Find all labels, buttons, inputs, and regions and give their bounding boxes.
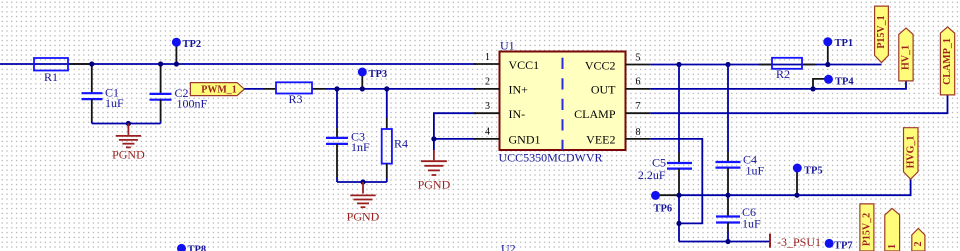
testpoint TP6	[651, 191, 679, 215]
svg-text:1: 1	[887, 244, 898, 249]
svg-text:TP7: TP7	[834, 241, 853, 251]
capacitor C2	[150, 64, 208, 124]
svg-text:7: 7	[636, 101, 641, 112]
junction PGND left	[126, 121, 131, 126]
ground PGND left	[112, 124, 145, 162]
svg-text:1uF: 1uF	[746, 164, 765, 178]
svg-text:U2: U2	[501, 242, 516, 251]
svg-text:4: 4	[485, 127, 490, 138]
pin 1 VCC1	[474, 52, 539, 72]
wire row2 R3 to pin2	[325, 88, 476, 90]
svg-text:R1: R1	[44, 70, 58, 84]
resistor R1	[34, 58, 92, 84]
ground PGND middle	[347, 182, 380, 224]
svg-text:R4: R4	[394, 137, 408, 151]
resistor R2	[759, 58, 815, 81]
svg-text:2.2uF: 2.2uF	[638, 168, 666, 182]
port P15V_2	[860, 204, 874, 251]
svg-text:100nF: 100nF	[177, 97, 208, 111]
svg-text:TP3: TP3	[369, 69, 388, 80]
junction bottom C6	[725, 239, 730, 244]
resistor R3	[263, 82, 325, 106]
svg-text:R2: R2	[776, 67, 790, 81]
junction row1 C2	[158, 61, 163, 66]
svg-text:PGND: PGND	[112, 148, 145, 162]
svg-text:TP8: TP8	[188, 245, 207, 251]
junction row5 C4	[725, 62, 730, 67]
svg-text:TP6: TP6	[654, 204, 673, 215]
svg-text:P15V_1: P15V_1	[876, 15, 887, 48]
port CLAMP_1	[940, 27, 954, 95]
svg-text:UCC5350MCDWVR: UCC5350MCDWVR	[499, 151, 603, 165]
junction row2 C3	[334, 86, 339, 91]
svg-text:VEE2: VEE2	[586, 133, 615, 147]
junction row1 TP2	[174, 61, 179, 66]
svg-text:R3: R3	[289, 92, 303, 106]
junction VEE2 leg	[676, 221, 681, 226]
svg-text:8: 8	[636, 127, 641, 138]
svg-text:TP4: TP4	[835, 76, 854, 87]
svg-text:PGND: PGND	[347, 210, 380, 224]
svg-text:1uF: 1uF	[742, 217, 761, 231]
port P15V_1	[875, 6, 889, 63]
wire row VCC2	[650, 64, 881, 66]
testpoint TP2	[172, 38, 201, 64]
testpoint TP7	[825, 239, 853, 251]
wire OUT row	[650, 81, 906, 89]
port CLAMP_2 partial	[912, 229, 925, 251]
svg-text:HV_1: HV_1	[901, 45, 912, 70]
pin 5 VCC2	[585, 53, 650, 73]
svg-text:OUT: OUT	[591, 83, 616, 97]
svg-text:PGND: PGND	[418, 178, 451, 192]
wire C3-R4 bottom	[337, 181, 387, 183]
pin 3 IN-	[474, 101, 525, 121]
capacitor C4	[716, 65, 765, 195]
junction y195 TP5	[794, 193, 799, 198]
wire bottom VEE	[679, 241, 770, 243]
junction y195 C5	[676, 193, 681, 198]
svg-text:1: 1	[485, 52, 490, 63]
svg-text:IN+: IN+	[509, 83, 529, 97]
resistor R4	[382, 89, 408, 182]
svg-text:IN-: IN-	[509, 107, 526, 121]
pin 4 GND1	[474, 127, 541, 147]
svg-text:3: 3	[485, 101, 490, 112]
svg-text:HVG_1: HVG_1	[905, 136, 916, 169]
wire C1-C2 bottom	[92, 123, 161, 125]
junction bottom row2	[360, 179, 365, 184]
svg-text:TP2: TP2	[183, 39, 202, 50]
port HV_2 partial	[885, 208, 900, 251]
svg-text:1uF: 1uF	[105, 96, 124, 110]
op-amp U1 body	[499, 38, 626, 164]
capacitor C3	[326, 89, 370, 182]
wire pin4 left	[434, 138, 476, 140]
junction OUT TP4	[810, 86, 815, 91]
svg-text:-3_PSU1: -3_PSU1	[777, 235, 821, 249]
svg-text:PWM_1: PWM_1	[201, 85, 237, 96]
junction row2 TP3	[360, 86, 365, 91]
svg-text:GND1: GND1	[509, 133, 541, 147]
svg-text:VCC1: VCC1	[509, 58, 540, 72]
port HVG_1	[904, 128, 919, 180]
testpoint TP8	[177, 244, 206, 251]
wire VEE2 row	[650, 139, 702, 224]
pin 7 CLAMP	[574, 101, 650, 121]
svg-text:P15V_2: P15V_2	[862, 213, 873, 246]
junction pin4 PGND	[431, 136, 436, 141]
svg-text:VCC2: VCC2	[585, 58, 616, 72]
svg-text:2: 2	[913, 242, 924, 247]
ground PGND U1	[418, 150, 451, 192]
svg-text:6: 6	[636, 77, 641, 88]
junction row5 TP1	[825, 62, 830, 67]
wire PWM to R3	[244, 88, 263, 90]
wire pin3 to PGND	[434, 113, 476, 150]
capacitor C1	[82, 64, 125, 124]
junction row1 C1	[89, 61, 94, 66]
testpoint TP5	[793, 164, 823, 196]
testpoint TP4	[813, 75, 854, 89]
junction y195 C4	[725, 193, 730, 198]
svg-text:CLAMP_1: CLAMP_1	[942, 38, 953, 85]
junction row5 C5	[676, 62, 681, 67]
power port -3_PSU1	[770, 234, 821, 249]
wire VEE bus y195	[679, 179, 911, 195]
svg-text:1nF: 1nF	[351, 140, 370, 154]
junction row2 R4	[384, 86, 389, 91]
testpoint TP3	[358, 68, 387, 89]
testpoint TP1	[823, 37, 853, 64]
pin 2 IN+	[474, 77, 528, 97]
port PWM_1	[190, 83, 244, 96]
wire CLAMP row	[650, 95, 947, 113]
capacitor C5	[638, 65, 692, 242]
svg-text:TP5: TP5	[804, 165, 823, 176]
wire net row1 left	[0, 63, 476, 65]
svg-text:5: 5	[636, 53, 641, 64]
svg-text:2: 2	[485, 77, 490, 88]
svg-text:U1: U1	[500, 38, 515, 52]
svg-text:TP1: TP1	[835, 38, 854, 49]
pin 8 VEE2	[586, 127, 650, 147]
pin 6 OUT	[591, 77, 650, 97]
port HV_1	[899, 28, 913, 81]
capacitor C6	[716, 195, 761, 241]
svg-text:CLAMP: CLAMP	[574, 107, 616, 121]
